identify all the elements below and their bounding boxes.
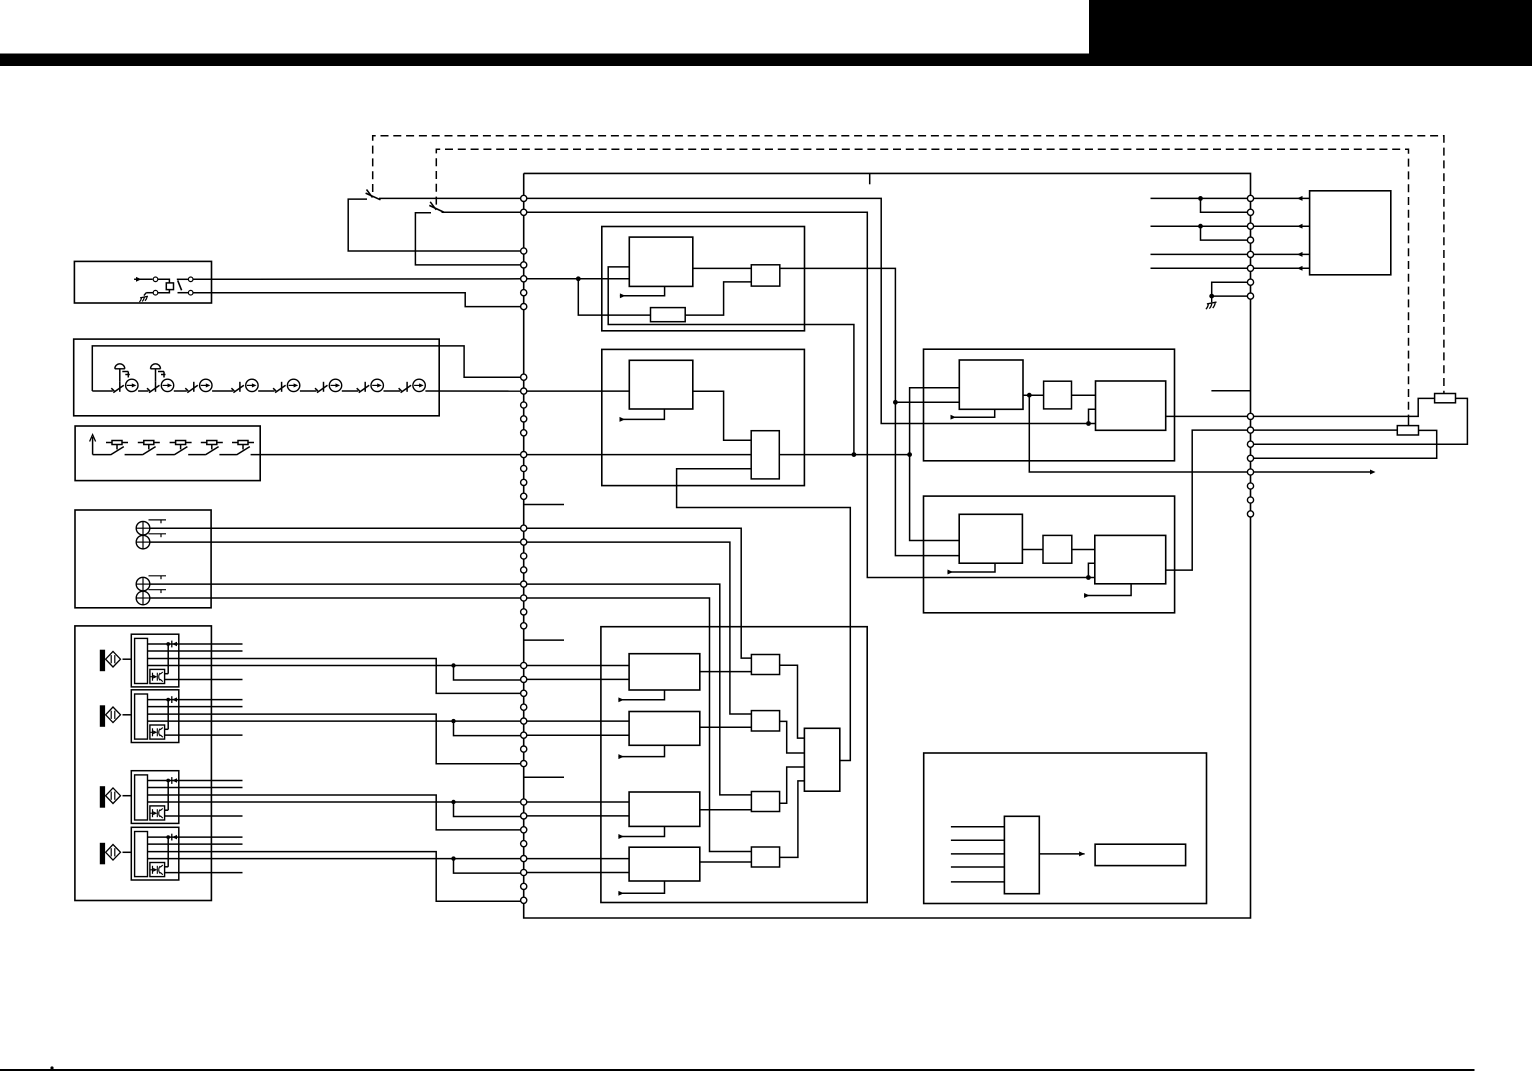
IC G1 bbox=[1004, 816, 1039, 893]
relay contact rail top bbox=[177, 278, 189, 280]
wire R1 to lineD bbox=[1251, 430, 1437, 458]
switch row bus wire bbox=[92, 346, 523, 391]
IC D1 bbox=[629, 654, 700, 690]
wire to ground bbox=[144, 293, 153, 296]
B2a stub arrow bbox=[620, 409, 665, 422]
wire Rb2 out to pin bbox=[1166, 430, 1251, 570]
wire D1 to S1 bbox=[700, 671, 752, 673]
wire S4 to T bbox=[780, 781, 805, 858]
right ground symbol bbox=[1206, 296, 1217, 309]
buffer S4 bbox=[751, 847, 779, 867]
IC Ra2 bbox=[1096, 381, 1166, 430]
wire arrow lineE bbox=[1251, 470, 1376, 475]
tick mark on main block top edge bbox=[869, 173, 871, 184]
wire Ra2 out to pin bbox=[1166, 415, 1251, 417]
wire pins to D1 bbox=[524, 666, 629, 680]
wire sense to Ra1 bbox=[910, 388, 960, 455]
lamp L3 bbox=[136, 576, 524, 591]
Rb1 stub arrow bbox=[947, 563, 995, 574]
wire lampL3 to S3 bbox=[524, 584, 752, 795]
wire Rm2 to Rb2 bbox=[1072, 549, 1095, 551]
black header logo block bbox=[1089, 0, 1532, 54]
wire coil bottom bbox=[158, 290, 170, 293]
wire D3 to S3 bbox=[700, 809, 752, 811]
wire D4 to S4 bbox=[700, 861, 752, 863]
switch row line bbox=[92, 390, 523, 392]
wire relay upper out bbox=[193, 278, 524, 281]
left connector stub 1 bbox=[524, 504, 564, 506]
wire W2 jog into Rb2 bbox=[1088, 563, 1094, 577]
black header rule bar bbox=[0, 54, 1532, 67]
interlock switch S2 tick bbox=[430, 202, 436, 210]
D2 stub arrow bbox=[618, 745, 664, 759]
wire S1 to T bbox=[780, 665, 805, 738]
relay ground symbol bbox=[139, 296, 147, 302]
left connector column pins bbox=[521, 195, 527, 903]
IC B2a bbox=[629, 360, 693, 409]
relay input arrow bbox=[134, 277, 152, 282]
wire W2 pin to Rb2 bbox=[524, 212, 1091, 580]
main board block outline bbox=[524, 173, 1251, 918]
switch units with lamps bbox=[111, 364, 425, 393]
box G2 bbox=[1095, 844, 1186, 865]
wire pin to B2a bbox=[524, 390, 630, 392]
wire B1c to B1b bbox=[685, 282, 751, 315]
IC D4 bbox=[629, 847, 700, 881]
block1 outline bbox=[602, 227, 805, 331]
IC B2b bbox=[751, 431, 779, 479]
wire long sense line bbox=[524, 454, 752, 456]
sensor PH1 bbox=[100, 634, 523, 693]
sensor PH4 bbox=[100, 827, 523, 901]
wire B2b to T bbox=[677, 469, 851, 761]
wire W1 jog into Ra2 bbox=[1089, 409, 1096, 423]
wire S2 return loop bbox=[415, 213, 523, 265]
block2 outline bbox=[602, 349, 805, 485]
wire dashed to R1 bbox=[1408, 416, 1410, 425]
wire B2a to B2b bbox=[693, 391, 751, 440]
interlock switch S2 blade bbox=[429, 205, 444, 212]
junction B1b-Ra1 bbox=[893, 400, 959, 405]
wire pins to D3 bbox=[524, 802, 629, 816]
selector up arrow bbox=[90, 435, 96, 455]
blockRa outline bbox=[924, 349, 1175, 461]
bottom rule dot bbox=[50, 1066, 53, 1069]
dashed linkage line 2 bbox=[436, 149, 1408, 416]
wire TR line4 bbox=[1151, 266, 1310, 271]
wire TR line3 bbox=[1151, 252, 1310, 257]
wire S2 to pin bbox=[442, 211, 524, 213]
selector switch box bbox=[75, 426, 260, 481]
wire B1a loop path bbox=[608, 267, 854, 455]
wire R2 to lineC bbox=[1251, 398, 1468, 444]
wire Ra1 out to pin bbox=[1029, 395, 1250, 472]
wire B1a to B1b bbox=[693, 267, 752, 269]
relay terminal a bbox=[153, 277, 158, 282]
lamp L2 bbox=[136, 534, 524, 549]
relay contact c bbox=[188, 277, 193, 282]
wire D2 to S2 bbox=[700, 726, 752, 728]
IC Rb2 bbox=[1095, 535, 1166, 583]
wire lineB bbox=[1251, 429, 1398, 431]
box Rm2 bbox=[1043, 535, 1072, 563]
left connector stub 2 bbox=[524, 639, 564, 641]
wire lampL4 to S4 bbox=[524, 598, 752, 852]
wire TR line1 bbox=[1151, 196, 1310, 201]
wire sense to Rb1 bbox=[910, 455, 960, 541]
right connector stub bbox=[1211, 390, 1250, 392]
dashed linkage line 1 bbox=[373, 136, 1444, 394]
power box T bbox=[804, 728, 839, 791]
IC D2 bbox=[629, 712, 700, 746]
lamp L1 bbox=[136, 520, 524, 535]
lamp unit box bbox=[75, 510, 211, 608]
relay terminal b bbox=[153, 290, 158, 295]
right connector column pins bbox=[1247, 195, 1253, 517]
wire relay lower out bbox=[193, 293, 524, 307]
wire pins to D4 bbox=[524, 859, 629, 873]
buffer S3 bbox=[751, 792, 779, 812]
relay contact blade bbox=[178, 280, 182, 290]
wire pins to ground bbox=[1209, 282, 1250, 298]
wire Rb1 to Rm2 bbox=[1022, 549, 1043, 551]
blockRb outline bbox=[924, 496, 1175, 613]
relay unit box bbox=[74, 261, 211, 303]
wire TR line1 branch bbox=[1201, 198, 1251, 212]
resistor B1c bbox=[651, 308, 686, 322]
wire B1b output bbox=[780, 268, 959, 555]
wire pins to D2 bbox=[524, 721, 629, 735]
wire TR line2 bbox=[1151, 224, 1310, 229]
IC B1b bbox=[751, 265, 780, 286]
lamp L4 bbox=[136, 590, 524, 605]
selector line segments bbox=[93, 454, 524, 456]
wire G1 output arrow bbox=[1039, 851, 1084, 856]
sensor unit box bbox=[75, 626, 212, 901]
wire lampL1 to S1 bbox=[524, 528, 752, 658]
wire Rm1 to Ra2 bbox=[1072, 394, 1096, 396]
left connector stub 3 bbox=[524, 776, 564, 778]
Rb2 stub arrow bbox=[1084, 584, 1131, 598]
wire Ra1 to Rm1 bbox=[1023, 393, 1044, 398]
IC D3 bbox=[629, 792, 700, 826]
D3 stub arrow bbox=[618, 826, 664, 839]
G1 input lines bbox=[951, 827, 1005, 882]
wire S3 to T bbox=[780, 767, 805, 803]
wire S1 return loop bbox=[348, 199, 524, 251]
driver block outline bbox=[601, 627, 867, 903]
interlock switch S1 tick bbox=[367, 190, 373, 198]
bottom page rule bbox=[0, 1069, 1475, 1071]
IC Rb1 bbox=[959, 514, 1022, 563]
wire pin to B1a bbox=[524, 276, 630, 281]
wire lampL2 to S2 bbox=[524, 542, 752, 714]
resistor R1 bbox=[1397, 426, 1418, 435]
box Rm1 bbox=[1044, 381, 1072, 409]
wire W1 pin to Ra2 bbox=[524, 198, 1091, 426]
connector box TR bbox=[1310, 191, 1391, 275]
wire TR line2 branch bbox=[1201, 226, 1251, 240]
buffer S2 bbox=[751, 711, 779, 731]
wire coil top bbox=[158, 279, 170, 283]
sensor PH2 bbox=[100, 690, 523, 764]
wire lineA bbox=[1251, 398, 1435, 416]
D1 stub arrow bbox=[618, 690, 664, 702]
switch row box bbox=[74, 339, 440, 416]
relay contact d bbox=[188, 290, 193, 295]
interlock switch S1 blade bbox=[366, 193, 381, 200]
logic block outline bbox=[924, 753, 1207, 904]
D4 stub arrow bbox=[618, 881, 664, 896]
wire to B1c bbox=[578, 279, 650, 315]
IC B1a bbox=[629, 237, 693, 286]
wire S2 to T bbox=[780, 721, 805, 753]
selector switch units bbox=[106, 441, 254, 455]
resistor R2 bbox=[1435, 394, 1456, 403]
Ra1 stub arrow bbox=[951, 409, 995, 419]
sensor PH3 bbox=[100, 771, 523, 830]
B1a stub arrow bbox=[620, 286, 665, 298]
relay contact rail bottom bbox=[178, 292, 189, 294]
relay coil bbox=[166, 283, 173, 290]
wire long sense line cont bbox=[779, 452, 912, 457]
buffer S1 bbox=[751, 655, 779, 675]
IC Ra1 bbox=[959, 360, 1023, 409]
wire S1 to pin bbox=[379, 197, 524, 199]
